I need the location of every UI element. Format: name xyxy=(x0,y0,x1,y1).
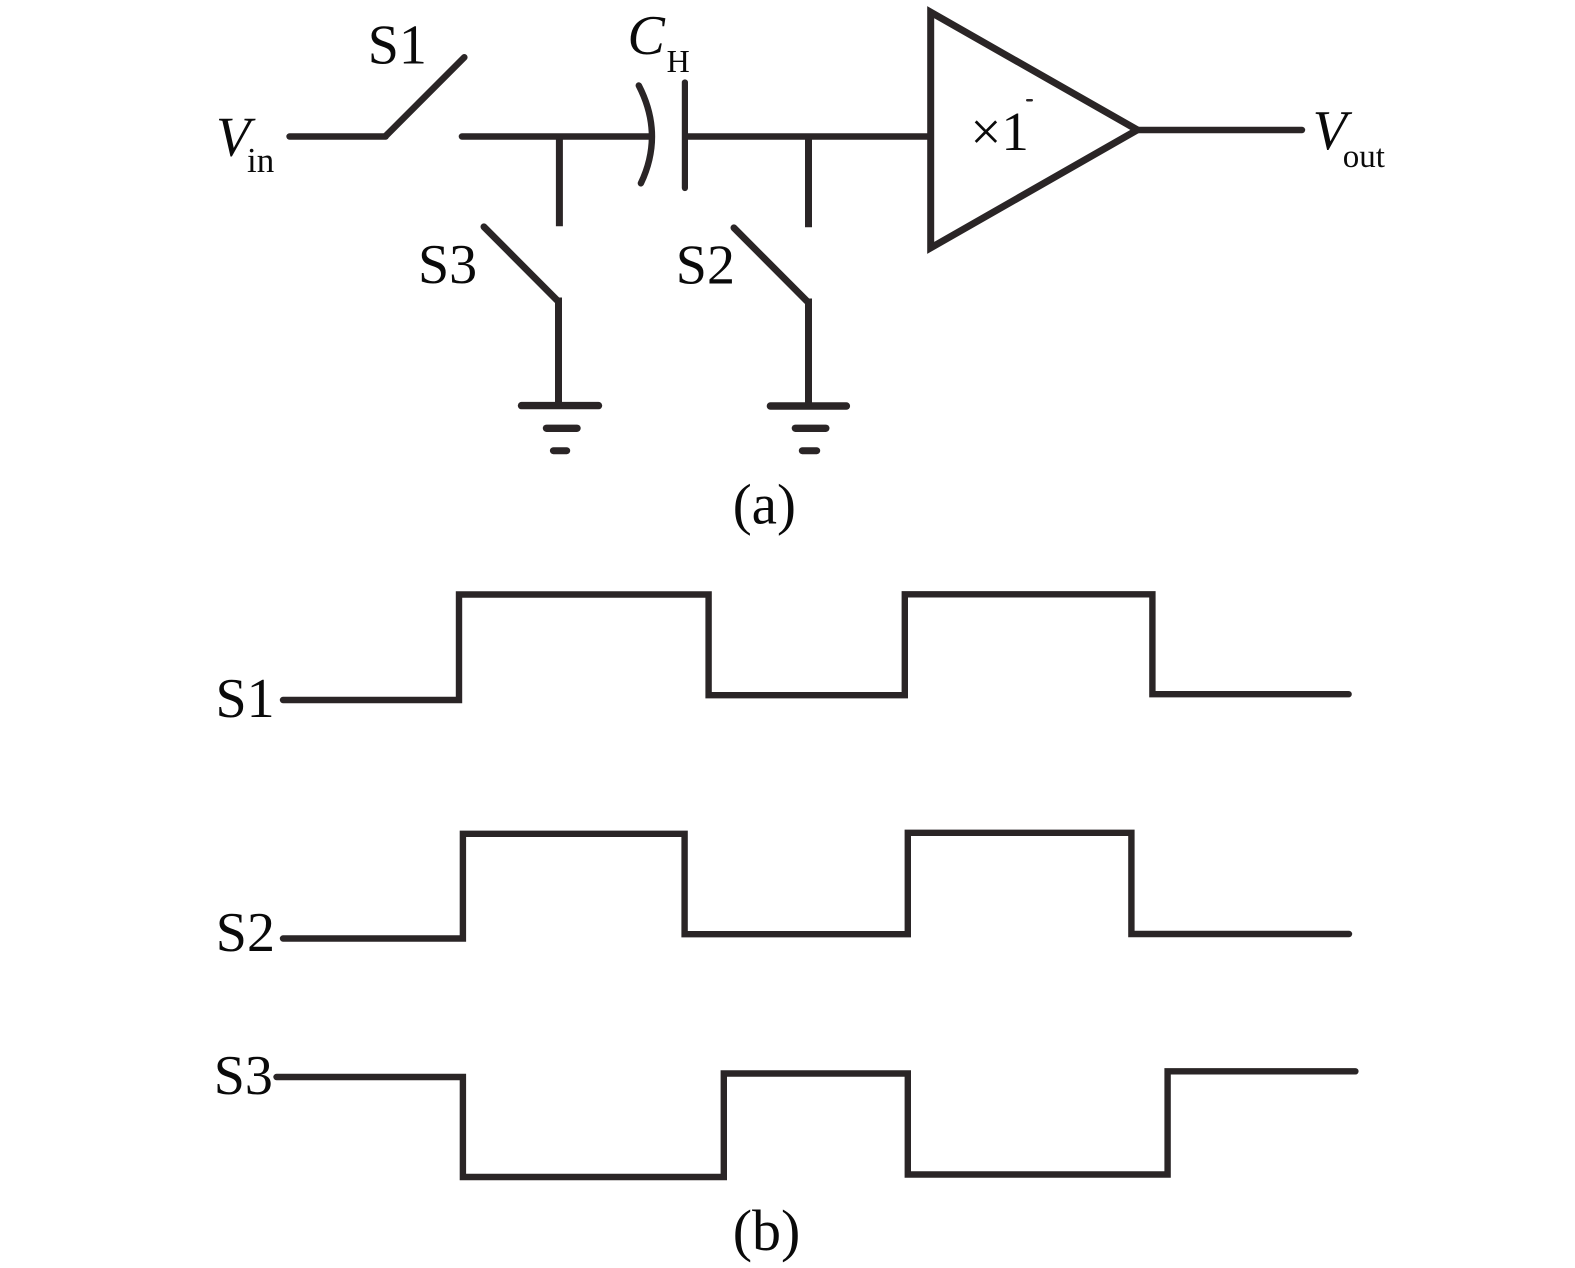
svg-text:S3: S3 xyxy=(214,1045,273,1107)
svg-text:S2: S2 xyxy=(216,902,275,964)
svg-text:S3: S3 xyxy=(418,234,477,296)
svg-text:out: out xyxy=(1343,139,1385,175)
svg-text:in: in xyxy=(247,141,274,180)
svg-text:(b): (b) xyxy=(733,1198,801,1263)
svg-text:S1: S1 xyxy=(216,668,275,730)
svg-text:×1: ×1 xyxy=(970,101,1029,162)
svg-text:S2: S2 xyxy=(676,235,735,297)
svg-text:C: C xyxy=(628,5,666,67)
svg-text:H: H xyxy=(667,43,690,79)
svg-text:S1: S1 xyxy=(368,14,427,76)
svg-text:(a): (a) xyxy=(733,474,796,537)
